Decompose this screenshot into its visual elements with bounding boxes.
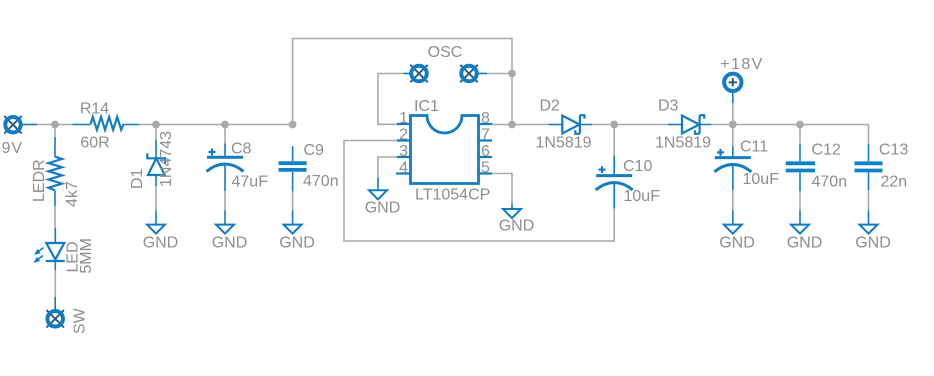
svg-text:470n: 470n <box>303 173 339 190</box>
wire C12 drop <box>799 125 801 145</box>
GND under C8 <box>212 211 248 252</box>
node junction at C9 / top loop <box>289 121 297 129</box>
GND under C12 <box>787 211 823 252</box>
wire C9 to GND <box>292 192 294 211</box>
terminal +18V <box>720 56 763 103</box>
wire D2 to C10 node <box>592 124 614 126</box>
capacitor C12 <box>786 142 847 192</box>
svg-text:10uF: 10uF <box>743 171 780 188</box>
capacitor C13 <box>855 142 909 191</box>
wire C8 drop <box>224 125 226 144</box>
resistor R14 <box>73 101 140 152</box>
wire OSC right to node <box>487 73 512 75</box>
svg-text:GND: GND <box>279 235 315 252</box>
resistor LEDR <box>31 137 81 207</box>
svg-text:LEDR: LEDR <box>31 159 48 202</box>
GND under C9 <box>279 211 315 252</box>
node junction at C8 <box>221 121 229 129</box>
svg-text:10uF: 10uF <box>624 188 661 205</box>
svg-text:6: 6 <box>481 143 490 160</box>
GND under C11 <box>719 211 755 252</box>
wire C10 node to D3 <box>614 124 668 126</box>
svg-text:C10: C10 <box>623 158 652 175</box>
svg-text:GND: GND <box>855 235 891 252</box>
node junction at D2 cathode / C10 / D3 anode <box>610 121 618 129</box>
svg-text:-9V: -9V <box>0 140 23 157</box>
svg-text:8: 8 <box>481 110 490 127</box>
svg-text:D3: D3 <box>658 98 679 115</box>
wire node to D2 <box>512 124 549 126</box>
wire D3 to +18V node <box>711 124 733 126</box>
svg-text:+18V: +18V <box>720 56 763 73</box>
svg-text:D1: D1 <box>129 168 146 189</box>
svg-text:3: 3 <box>399 143 408 160</box>
svg-text:470n: 470n <box>812 174 848 191</box>
IC IC1 LT1054CP DIP-8 body with pins 1-8 <box>396 98 492 204</box>
wire C13 to GND <box>868 190 870 211</box>
terminal -9V <box>0 116 37 157</box>
node junction at -9V rail / LEDR <box>51 121 59 129</box>
svg-text:C11: C11 <box>740 139 768 156</box>
node junction at D3 cathode / +18V / C11 <box>729 121 737 129</box>
GND pin5 <box>499 204 535 235</box>
svg-text:GND: GND <box>499 218 535 235</box>
wire junction to LEDR <box>54 125 56 138</box>
wire pin8 to node <box>492 124 512 126</box>
GND under C13 <box>855 211 891 252</box>
svg-text:C8: C8 <box>231 141 252 158</box>
svg-text:1N4743: 1N4743 <box>158 131 175 187</box>
svg-text:D2: D2 <box>540 98 561 115</box>
wire LEDR to LED <box>54 206 56 228</box>
svg-text:47uF: 47uF <box>232 174 269 191</box>
node junction at pin8 / D2 anode <box>508 121 516 129</box>
svg-text:OSC: OSC <box>428 44 463 61</box>
svg-text:LT1054CP: LT1054CP <box>415 187 490 204</box>
wire C11 drop <box>732 125 734 147</box>
svg-text:5MM: 5MM <box>78 238 95 274</box>
svg-text:GND: GND <box>787 235 823 252</box>
svg-text:2: 2 <box>399 127 408 144</box>
wire pin2 loop to C10 bottom <box>344 141 614 242</box>
LED 5MM <box>33 228 95 274</box>
wire +18V drop <box>732 103 734 125</box>
capacitor C8 <box>207 141 269 192</box>
svg-text:C13: C13 <box>879 142 908 159</box>
node junction at D1 <box>152 121 160 129</box>
node junction at C12 <box>796 121 804 129</box>
svg-text:IC1: IC1 <box>414 98 439 115</box>
svg-text:1N5819: 1N5819 <box>655 135 711 152</box>
wire pin1 net to OSC <box>378 74 404 125</box>
svg-text:SW: SW <box>72 307 89 334</box>
wire pin5 to GND <box>492 174 512 204</box>
wire pin3 to GND <box>378 157 397 178</box>
wire rail mid gray <box>139 124 293 126</box>
svg-text:5: 5 <box>481 160 490 177</box>
wire C10 drop <box>613 125 615 156</box>
terminal OSC left <box>404 65 428 82</box>
capacitor C10 <box>596 156 660 209</box>
svg-text:22n: 22n <box>881 174 908 191</box>
node junction at OSC right <box>508 70 516 78</box>
wire C12 to GND <box>799 191 801 211</box>
wire rail right <box>733 125 869 145</box>
wire rail left gray <box>37 124 73 126</box>
terminal OSC right <box>460 65 487 82</box>
GND pin3 <box>365 178 401 217</box>
wire D1 drop <box>155 125 157 141</box>
diode D2 schottky <box>536 98 593 152</box>
capacitor C11 <box>714 139 779 191</box>
svg-text:GND: GND <box>212 235 248 252</box>
GND under D1 <box>143 211 179 252</box>
wire C8 to GND <box>224 191 226 211</box>
wire D1 to GND <box>155 186 157 211</box>
svg-text:60R: 60R <box>80 134 109 151</box>
wire C11 to GND <box>732 190 734 211</box>
svg-text:GND: GND <box>143 235 179 252</box>
svg-text:R14: R14 <box>80 101 109 118</box>
svg-text:1: 1 <box>399 110 408 127</box>
diode D1 zener <box>129 131 175 189</box>
diode D3 schottky <box>655 98 711 152</box>
svg-text:GND: GND <box>365 200 401 217</box>
wire LED to SW <box>54 270 56 297</box>
terminal SW <box>47 307 89 334</box>
capacitor C9 <box>279 142 339 192</box>
wire top loop <box>293 39 512 125</box>
wire LED to SW blue lead <box>54 297 56 310</box>
svg-text:C9: C9 <box>304 142 325 159</box>
svg-text:GND: GND <box>719 235 755 252</box>
svg-text:4: 4 <box>399 160 408 177</box>
svg-text:1N5819: 1N5819 <box>536 135 592 152</box>
svg-text:C12: C12 <box>812 142 841 159</box>
svg-text:7: 7 <box>481 127 490 144</box>
svg-text:4k7: 4k7 <box>64 181 81 207</box>
